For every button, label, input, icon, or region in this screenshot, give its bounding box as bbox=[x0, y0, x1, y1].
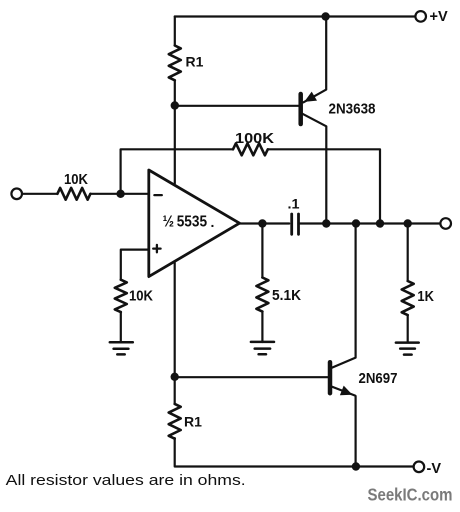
wire top-left drop to R1 bbox=[174, 17, 176, 46]
wire 1K drop bbox=[407, 224, 409, 282]
node dot top rail bbox=[321, 12, 329, 20]
wire node to R1 bottom bbox=[174, 377, 176, 404]
wire base of 2N697 bbox=[175, 376, 328, 378]
node dot R1 top / base bbox=[171, 101, 179, 109]
wire 1K to ground bbox=[407, 315, 409, 342]
svg-text:R1: R1 bbox=[186, 54, 204, 70]
ground (left) bbox=[110, 342, 133, 354]
resistor 100K bbox=[233, 143, 268, 155]
svg-text:.1: .1 bbox=[288, 196, 300, 212]
node dot bottom left bbox=[171, 373, 179, 381]
wire R1 bottom to node bbox=[174, 80, 176, 105]
wire noninverting input to 10K bbox=[121, 250, 148, 280]
svg-text:5.1K: 5.1K bbox=[272, 287, 301, 304]
resistor 10K (input) bbox=[57, 188, 90, 200]
resistor R1 (bottom) bbox=[169, 404, 181, 439]
node dot inverting input bbox=[116, 190, 124, 198]
svg-text:.: . bbox=[211, 214, 215, 230]
svg-text:SeekIC.com: SeekIC.com bbox=[368, 485, 453, 505]
wire node to op-amp V+ pin bbox=[174, 105, 176, 183]
wire op-amp output bbox=[240, 222, 290, 224]
node dot 1K bbox=[404, 219, 412, 227]
wire 10K to ground bbox=[120, 312, 122, 342]
wire base of 2N3638 bbox=[175, 105, 299, 107]
transistor Q2 2N697 bbox=[330, 224, 356, 467]
wire top rail bbox=[175, 15, 415, 17]
wire 10K to inverting input bbox=[90, 193, 148, 195]
ground (right) bbox=[396, 343, 419, 355]
svg-text:+V: +V bbox=[430, 9, 448, 25]
svg-text:100K: 100K bbox=[235, 130, 274, 147]
resistor R1 (top) bbox=[169, 46, 181, 81]
wire R1 to bottom rail bbox=[175, 438, 414, 466]
wire 100K to output node bbox=[268, 149, 380, 223]
svg-text:10K: 10K bbox=[129, 288, 153, 305]
resistor 10K (to ground) bbox=[115, 280, 127, 312]
transistor Q1 2N3638 bbox=[301, 17, 327, 224]
ground (middle) bbox=[251, 342, 274, 354]
terminal output bbox=[440, 218, 451, 229]
node dot bottom rail bbox=[352, 462, 360, 470]
op-amp U1 1/2 5535 bbox=[149, 170, 240, 277]
terminal +V bbox=[415, 11, 426, 22]
svg-text:-V: -V bbox=[427, 461, 442, 477]
node dot collector Q2 bbox=[352, 219, 360, 227]
wire cap to output terminal bbox=[299, 222, 441, 224]
resistor 5.1K bbox=[256, 278, 268, 312]
node dot op-amp output bbox=[258, 219, 266, 227]
svg-text:1K: 1K bbox=[417, 288, 434, 305]
wire 5.1K drop bbox=[261, 224, 263, 278]
wire input to 10K bbox=[22, 193, 57, 195]
node dot feedback bbox=[376, 219, 384, 227]
svg-text:½ 5535: ½ 5535 bbox=[163, 214, 208, 231]
svg-text:2N3638: 2N3638 bbox=[329, 100, 376, 117]
svg-text:All resistor values are in ohm: All resistor values are in ohms. bbox=[6, 473, 246, 489]
terminal -V bbox=[414, 462, 425, 473]
resistor 1K bbox=[402, 281, 414, 315]
input terminal bbox=[11, 189, 22, 200]
node dot collector Q1 bbox=[322, 219, 330, 227]
svg-text:10K: 10K bbox=[64, 171, 88, 188]
svg-text:2N697: 2N697 bbox=[359, 370, 398, 387]
wire 5.1K to ground bbox=[261, 312, 263, 343]
wire op-amp V- pin down to node bbox=[174, 263, 176, 377]
svg-text:R1: R1 bbox=[184, 414, 202, 430]
wire feedback top: node to 100K bbox=[121, 149, 233, 194]
capacitor C1 .1 bbox=[292, 214, 299, 234]
